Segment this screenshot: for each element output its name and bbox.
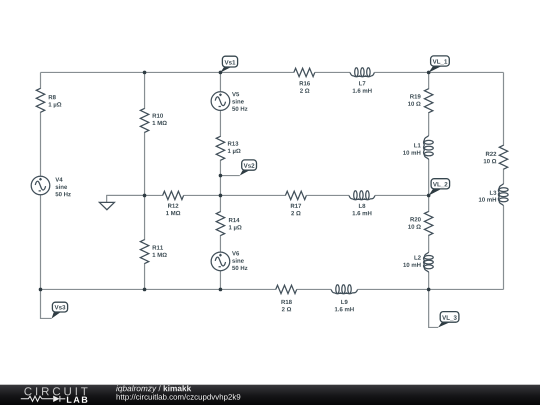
wire right rail R22-L3 [503, 169, 505, 184]
voltage source V4 [31, 176, 71, 196]
wire column4 R20-L2 [428, 235, 430, 252]
wire stub to Vs2 [220, 175, 239, 177]
wire column4 R19-L1 [428, 112, 430, 135]
inductor L7 [350, 68, 374, 93]
node junction dot 5 [219, 194, 223, 198]
wire column3 middle-R14 [219, 195, 221, 212]
node junction dot 8 [39, 288, 43, 292]
wire right rail L3-bottom [503, 206, 505, 290]
wire column2 R11-bottom [144, 263, 146, 289]
wire left rail V4-bottom [40, 195, 42, 290]
resistor R20 [408, 211, 433, 235]
wire column3 V5-R13 [219, 110, 221, 136]
node junction dot 2 [219, 71, 223, 75]
ground [99, 195, 144, 209]
footer bar [0, 385, 540, 405]
resistor R13 [216, 136, 240, 160]
node Vs1 flag [220, 56, 237, 72]
node junction dot 11 [427, 288, 431, 292]
node junction dot 3 [427, 71, 431, 75]
resistor R14 [216, 212, 241, 236]
credit line 2 url text [117, 394, 241, 401]
node junction dot 10 [219, 288, 223, 292]
wire column4 L1-middle [428, 160, 430, 196]
node Vs3 flag [52, 302, 68, 318]
wire right rail top-R22 [503, 72, 505, 145]
wire column3 R14-V6 [219, 235, 221, 252]
wire bottom row R18-L9 [297, 288, 331, 290]
wire bottom row right segment [358, 288, 504, 290]
wire column3 top-V5 [219, 72, 221, 91]
node VL_3 flag [438, 312, 459, 328]
wire column2 top-R10 [144, 72, 146, 109]
wire top row right segment [374, 71, 503, 73]
node junction dot 7 [219, 174, 223, 178]
resistor R10 [140, 108, 166, 132]
resistor R8 [36, 88, 61, 112]
node junction dot 9 [143, 288, 147, 292]
wire column3 R13-middle [219, 160, 221, 196]
wire middle row ground-R12 [107, 194, 163, 196]
node junction dot 1 [143, 71, 147, 75]
wire top row left segment [41, 71, 294, 73]
node VL_2 flag [429, 179, 450, 196]
wire top row R16-L7 [315, 71, 350, 73]
resistor R18 [276, 285, 297, 311]
wire left rail R8-V4 [40, 112, 42, 177]
wire stub to VL_3 [429, 289, 438, 327]
resistor R17 [285, 191, 306, 215]
wire left rail above R8 [40, 72, 42, 88]
inductor L9 [331, 285, 358, 312]
node junction dot 6 [427, 194, 431, 198]
wire middle row L8-VL_2 [375, 194, 429, 196]
resistor R22 [484, 145, 508, 169]
node Vs2 flag [240, 160, 257, 176]
node junction dot 4 [143, 194, 147, 198]
credit line 1 [116, 385, 191, 393]
node VL_1 flag [429, 56, 450, 73]
resistor R19 [408, 89, 433, 113]
logo resistor-diode glyph [21, 396, 66, 402]
wire stub to Vs3 [41, 289, 52, 318]
wire column4 L2-bottom [428, 272, 430, 289]
inductor L2 [403, 252, 433, 272]
CIRCUIT wordmark [24, 387, 87, 395]
voltage source V5 [211, 92, 247, 111]
wire column4 middle-R20 [428, 195, 430, 212]
wire column3 V6-bottom [219, 271, 221, 290]
resistor R11 [140, 240, 166, 264]
LAB wordmark [67, 397, 87, 403]
resistor R12 [163, 191, 184, 215]
inductor L8 [349, 191, 375, 216]
inductor L3 [479, 184, 508, 206]
wire bottom row left segment [41, 288, 276, 290]
resistor R16 [294, 68, 315, 92]
voltage source V6 [211, 251, 247, 270]
wire column4 top-R19 [428, 72, 430, 89]
wire middle row R17-L8 [306, 194, 349, 196]
wire middle row R12-R17 [184, 194, 286, 196]
wire column2 R10-R11 [144, 132, 146, 240]
inductor L1 [403, 135, 433, 159]
